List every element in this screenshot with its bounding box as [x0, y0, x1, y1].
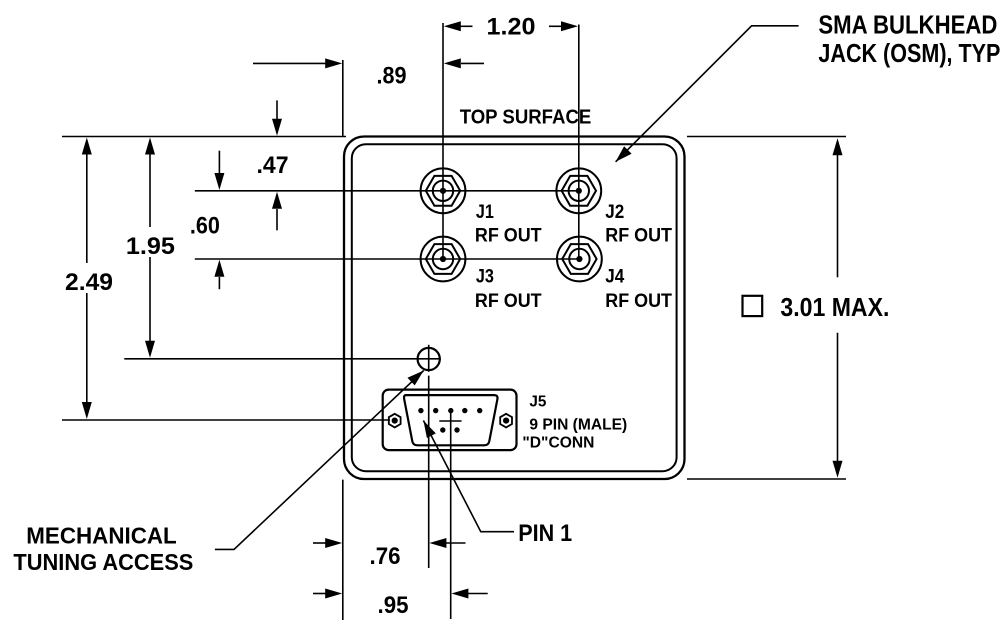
svg-text:9 PIN (MALE): 9 PIN (MALE)	[529, 416, 627, 433]
mechanical tuning access hole	[418, 345, 440, 372]
dimension 1.20	[444, 21, 578, 31]
svg-text:3.01 MAX.: 3.01 MAX.	[780, 292, 889, 322]
svg-text:J4: J4	[605, 267, 624, 288]
svg-text:.60: .60	[190, 213, 220, 240]
inner enclosure panel outline	[352, 144, 677, 471]
J1 vertical extension line	[442, 23, 444, 259]
J2 vertical extension line	[578, 25, 580, 260]
svg-text:RF OUT: RF OUT	[605, 226, 672, 247]
top datum extension line	[62, 136, 346, 138]
D-sub left mounting screw	[389, 414, 401, 428]
tuning access vertical extension (.76 extension)	[428, 376, 430, 568]
svg-text:.76: .76	[370, 543, 401, 570]
svg-text:.47: .47	[257, 152, 289, 179]
svg-text:J1: J1	[476, 202, 494, 223]
dimension .95	[313, 589, 488, 599]
J1-J2 center line	[195, 190, 579, 192]
svg-text:PIN 1: PIN 1	[518, 520, 572, 547]
svg-text:.89: .89	[377, 63, 407, 90]
tuning access center line (1.95 extension)	[124, 358, 441, 360]
leader mechanical tuning access callout	[215, 371, 424, 550]
D-connector center line (2.49 extension)	[62, 419, 390, 421]
svg-text:"D"CONN: "D"CONN	[522, 435, 594, 452]
SMA jack J2	[556, 168, 601, 213]
SMA jack J4	[557, 237, 602, 282]
svg-text:SMA BULKHEAD: SMA BULKHEAD	[818, 9, 997, 39]
J3-J4 center line	[195, 258, 580, 260]
SMA jack J1	[421, 168, 466, 213]
dimension .60 arrows	[214, 151, 224, 290]
D-sub insert trapezoid	[404, 395, 498, 445]
svg-text:TUNING ACCESS: TUNING ACCESS	[13, 549, 193, 575]
D-sub center mark horizontal tick	[439, 420, 461, 422]
body left edge bottom extension line	[342, 480, 344, 620]
svg-text:J2: J2	[605, 202, 624, 223]
svg-text:JACK (OSM), TYP: JACK (OSM), TYP	[818, 38, 1000, 68]
svg-text:RF OUT: RF OUT	[475, 226, 542, 247]
svg-text:RF OUT: RF OUT	[475, 291, 542, 312]
D-sub center mark vertical (.95 extension)	[450, 412, 452, 619]
svg-text:TOP SURFACE: TOP SURFACE	[460, 107, 592, 129]
SMA jack J3	[421, 237, 466, 282]
dimension 3.01	[687, 137, 846, 480]
leader SMA bulkhead jack callout	[616, 26, 799, 162]
svg-text:1.20: 1.20	[487, 13, 536, 40]
outer enclosure body outline	[344, 137, 685, 480]
dimension .47 arrows	[272, 100, 282, 230]
svg-text:RF OUT: RF OUT	[605, 291, 672, 312]
svg-text:MECHANICAL: MECHANICAL	[26, 523, 176, 549]
dimension .89	[253, 58, 484, 136]
D-sub connector J5 shell	[383, 390, 517, 451]
svg-text:.95: .95	[378, 592, 409, 619]
D-sub pins top row (pins 1-5)	[418, 408, 482, 413]
svg-text:2.49: 2.49	[65, 269, 113, 296]
square symbol for 3.01	[743, 296, 763, 316]
D-sub right mounting screw	[500, 414, 512, 428]
svg-text:J5: J5	[529, 394, 546, 411]
svg-text:J3: J3	[476, 267, 494, 288]
dimension 2.49	[82, 138, 92, 420]
dimension .76	[313, 538, 466, 548]
leader pin 1 callout	[423, 421, 514, 532]
D-sub pins bottom row	[440, 427, 460, 432]
dimension 1.95	[145, 138, 155, 358]
svg-text:1.95: 1.95	[126, 233, 175, 260]
